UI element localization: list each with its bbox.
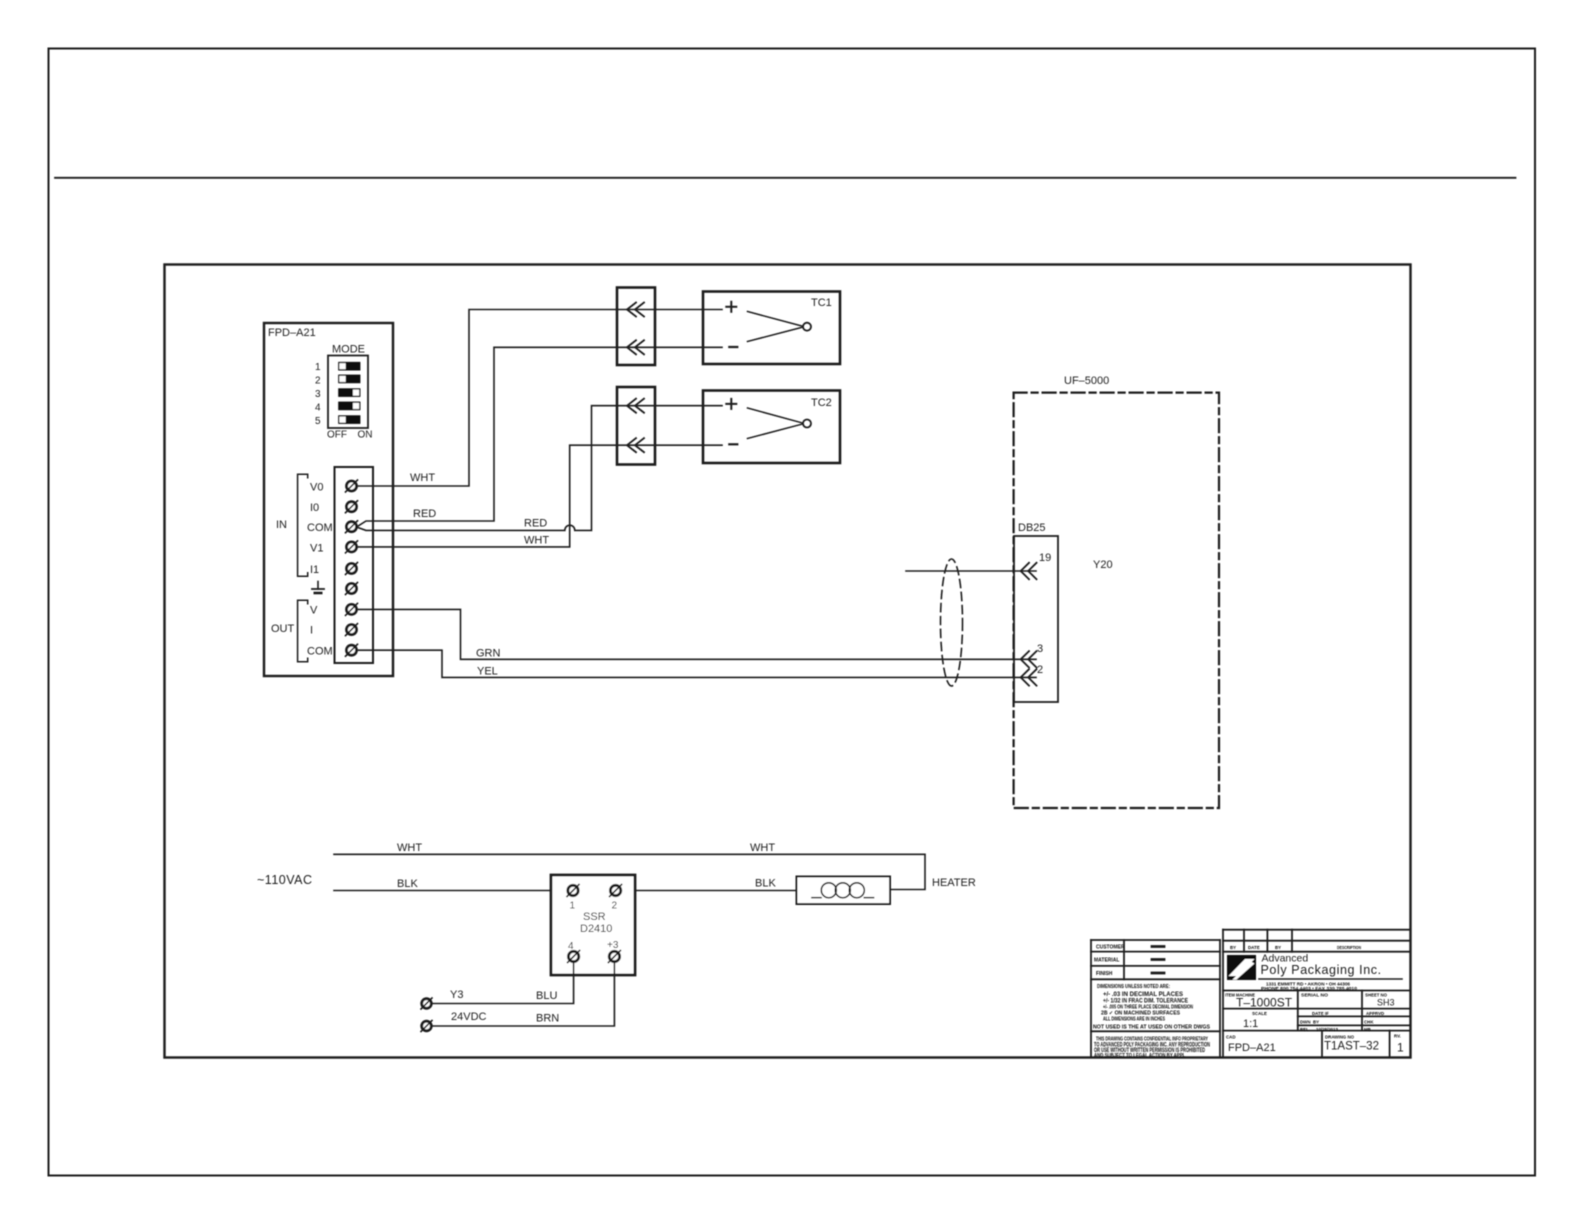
svg-text:I: I (310, 625, 313, 637)
svg-text:I1: I1 (310, 564, 319, 576)
date cell (1300, 1011, 1384, 1032)
svg-text:BRN: BRN (536, 1013, 559, 1025)
svg-text:Y20: Y20 (1093, 559, 1113, 571)
svg-text:4: 4 (315, 403, 321, 414)
scale cell (1243, 1011, 1267, 1030)
svg-text:CHK: CHK (1364, 1020, 1374, 1025)
header rule line (55, 177, 1516, 179)
svg-text:V1: V1 (310, 543, 323, 555)
svg-text:T–1000ST: T–1000ST (1236, 996, 1293, 1010)
svg-text:UF–5000: UF–5000 (1064, 375, 1109, 387)
company logo (1227, 955, 1256, 980)
SSR terminal 4 (568, 951, 580, 963)
svg-text:24VDC: 24VDC (451, 1011, 487, 1023)
terminal Y3 (421, 989, 463, 1009)
svg-text:10/28/2013: 10/28/2013 (1316, 1027, 1339, 1032)
svg-text:FPD–A21: FPD–A21 (1228, 1042, 1276, 1054)
title row 2 label (1094, 958, 1164, 964)
svg-text:D2410: D2410 (580, 923, 612, 935)
svg-text:GRN: GRN (476, 648, 501, 660)
dip switch 3 (ON) (315, 388, 360, 400)
sheet cell (1365, 993, 1395, 1008)
terminal I1 (310, 563, 358, 577)
svg-text:RED: RED (524, 518, 547, 530)
svg-text:V0: V0 (310, 482, 323, 494)
proprietary legal text (1094, 1037, 1210, 1059)
OUT bracket (271, 600, 308, 662)
svg-text:YEL: YEL (477, 666, 498, 678)
svg-text:I0: I0 (310, 502, 319, 514)
terminal OUT COM (307, 644, 358, 657)
svg-text:+/- 1/32 IN FRAC DIM. TOLERANC: +/- 1/32 IN FRAC DIM. TOLERANCE (1103, 998, 1189, 1005)
svg-text:SH3: SH3 (1377, 998, 1395, 1008)
relay SSR D2410 (551, 875, 635, 975)
thermocouple TC2 (703, 391, 840, 464)
svg-text:REL: REL (1300, 1027, 1309, 1032)
wire WHT line side (334, 842, 925, 890)
wire BLK through SSR to heater (334, 878, 797, 891)
connector plug for TC1 (617, 288, 655, 366)
connector DB25 (1014, 522, 1058, 702)
svg-text:DWN: DWN (1300, 1020, 1311, 1025)
svg-text:BY: BY (1313, 1020, 1319, 1025)
terminal OUT V (310, 603, 358, 616)
title row 1 label (1096, 945, 1164, 951)
svg-text:WHT: WHT (397, 842, 422, 854)
svg-text:DATE IF: DATE IF (1312, 1011, 1329, 1016)
terminal V1 (310, 541, 358, 555)
svg-text:RV.: RV. (1394, 1034, 1401, 1039)
svg-text:WHT: WHT (410, 472, 435, 484)
svg-text:19: 19 (1039, 552, 1051, 564)
svg-text:DATE: DATE (1248, 945, 1260, 950)
wire WHT from V1 to TC2 - (357, 445, 723, 547)
svg-text:DIMENSIONS UNLESS NOTED ARE:: DIMENSIONS UNLESS NOTED ARE: (1097, 984, 1170, 990)
svg-text:1:1: 1:1 (1243, 1018, 1258, 1030)
svg-text:BLK: BLK (755, 878, 776, 890)
tolerance notes text (1093, 984, 1210, 1031)
svg-text:TC2: TC2 (811, 397, 832, 409)
pin 3 (1021, 643, 1043, 668)
title block grid right section (1223, 930, 1410, 1057)
svg-text:AND SUBJECT TO LEGAL ACTION BY: AND SUBJECT TO LEGAL ACTION BY APPI. (1094, 1053, 1186, 1059)
svg-text:FINISH: FINISH (1096, 971, 1113, 977)
wire RED from COM to TC1 - (357, 347, 723, 527)
svg-text:DESCRIPTION: DESCRIPTION (1337, 945, 1361, 950)
svg-text:CAD: CAD (1226, 1035, 1236, 1040)
wire GRN from OUT V to DB25 pin 3 (357, 609, 1037, 659)
terminal chassis ground (346, 583, 358, 595)
revision cell (1394, 1034, 1404, 1055)
svg-text:IN: IN (276, 519, 287, 531)
svg-text:3: 3 (1037, 643, 1043, 655)
svg-text:1: 1 (570, 901, 576, 912)
svg-text:ALL DIMENSIONS ARE IN INCHES: ALL DIMENSIONS ARE IN INCHES (1103, 1017, 1166, 1023)
svg-text:RED: RED (413, 508, 436, 520)
svg-text:WHT: WHT (524, 535, 549, 547)
IN bracket (276, 474, 308, 576)
terminal strip of FPD-A21 (335, 467, 374, 663)
company name (1259, 953, 1402, 991)
pin 19 (1021, 552, 1052, 579)
wire RED from COM to TC2 + (with jump over WHT wire) (357, 406, 723, 531)
svg-text:T1AST–32: T1AST–32 (1324, 1041, 1379, 1053)
heater HTR (797, 877, 976, 905)
wire BLU from Y3 to SSR 4 (431, 962, 573, 1004)
title row 3 label (1096, 971, 1164, 977)
svg-text:SERIAL NO: SERIAL NO (1301, 993, 1329, 998)
svg-text:V: V (310, 605, 318, 617)
SSR terminal +3 (608, 951, 620, 963)
terminal COM (in) (307, 521, 358, 534)
svg-text:SCALE: SCALE (1252, 1011, 1267, 1016)
dip switch block MODE (327, 344, 373, 441)
svg-text:DRAWING NO: DRAWING NO (1325, 1035, 1355, 1040)
svg-text:1: 1 (315, 362, 321, 373)
svg-text:MATERIAL: MATERIAL (1094, 958, 1119, 964)
svg-text:COM: COM (307, 522, 333, 534)
svg-text:OFF: OFF (327, 430, 347, 441)
svg-text:MODE: MODE (332, 344, 365, 356)
svg-text:BLU: BLU (536, 990, 557, 1002)
cad file cell (1226, 1035, 1276, 1055)
svg-text:NOT USED IS THE AT USED ON OTH: NOT USED IS THE AT USED ON OTHER DWGS (1093, 1025, 1210, 1031)
svg-text:OUT: OUT (271, 623, 295, 635)
controller UF-5000 dashed enclosure (1014, 375, 1219, 808)
svg-text:DB25: DB25 (1018, 522, 1046, 534)
svg-text:APPRVD: APPRVD (1366, 1011, 1384, 1016)
svg-text:2: 2 (315, 376, 321, 387)
svg-text:PHONE 800.754.4403 • FAX 330.7: PHONE 800.754.4403 • FAX 330.785.4010 (1261, 986, 1358, 991)
terminal 24VDC (421, 1011, 487, 1032)
drawing number cell (1324, 1035, 1379, 1053)
svg-text:5: 5 (315, 416, 321, 427)
svg-text:ON: ON (358, 430, 373, 441)
svg-text:2: 2 (612, 901, 618, 912)
SSR terminal 2 (610, 885, 622, 897)
svg-text:2: 2 (1037, 664, 1043, 676)
revision header labels (1230, 945, 1361, 950)
title block grid left section (1091, 940, 1220, 1057)
thermocouple TC1 (703, 292, 840, 365)
svg-text:WHT: WHT (750, 842, 775, 854)
svg-text:FPD–A21: FPD–A21 (268, 327, 316, 339)
dip switch 5 (OFF) (315, 415, 360, 427)
ground symbol (312, 582, 324, 594)
wire YEL from OUT COM to DB25 pin 2 (357, 650, 1037, 677)
svg-text:3: 3 (315, 389, 321, 400)
svg-text:Y3: Y3 (450, 989, 463, 1001)
module FPD-A21 box (264, 323, 393, 676)
dip switch 1 (OFF) (315, 362, 360, 373)
wire BRN from 24VDC to SSR +3 (431, 962, 614, 1026)
svg-text:BLK: BLK (397, 878, 418, 890)
svg-text:1: 1 (1397, 1041, 1404, 1055)
svg-text:~110VAC: ~110VAC (257, 873, 313, 887)
wire WHT from V0 to TC1 + (357, 310, 723, 487)
terminal V0 (310, 480, 358, 494)
dip switch 2 (OFF) (315, 375, 360, 387)
svg-text:CUSTOMER: CUSTOMER (1096, 945, 1125, 951)
SSR terminal 1 (567, 885, 579, 897)
terminal OUT I (310, 624, 358, 637)
svg-text:SSR: SSR (583, 911, 606, 923)
pin 2 (1021, 664, 1043, 686)
svg-text:BY: BY (1230, 945, 1236, 950)
drawing frame border (165, 265, 1411, 1058)
connector plug for TC2 (617, 387, 655, 465)
terminal I0 (310, 501, 358, 514)
svg-text:HEATER: HEATER (932, 877, 976, 889)
svg-text:TC1: TC1 (811, 297, 832, 309)
svg-text:+3: +3 (607, 940, 619, 951)
wire shield drain to DB25 pin 19 (906, 570, 1036, 572)
dip switch 4 (ON) (315, 402, 360, 414)
shield ellipse around cable (941, 559, 963, 686)
svg-text:BY: BY (1275, 945, 1281, 950)
machine cell (1225, 993, 1293, 1010)
svg-text:COM: COM (307, 646, 333, 658)
svg-text:Poly Packaging Inc.: Poly Packaging Inc. (1261, 963, 1382, 977)
svg-text:MB: MB (1364, 1027, 1371, 1032)
